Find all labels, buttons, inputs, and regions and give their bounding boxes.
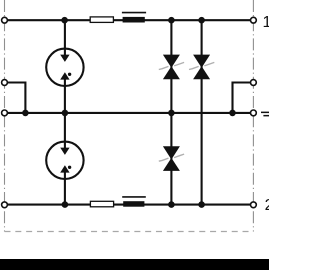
junction dot bottom rail at GDT column (62, 201, 69, 208)
ground symbol (cut off at right edge) (261, 112, 269, 117)
enclosure boundary left chain line (4, 0, 6, 232)
suppressor diode D1 (bidirectional, column A top) (159, 55, 184, 80)
terminal upper-left (2, 80, 8, 86)
wire GDT column lower shaft (64, 172, 66, 204)
inductor L1 (top, filled with core line) (122, 13, 146, 23)
junction dot middle rail at right bend (229, 110, 236, 117)
terminal middle-left (2, 110, 8, 116)
svg-text:1: 1 (263, 14, 270, 31)
junction dot bottom rail at diode column A (168, 201, 175, 208)
terminal top-left (2, 17, 8, 23)
svg-text:2: 2 (265, 197, 269, 214)
junction dot middle rail at left bend (22, 110, 29, 117)
suppressor diode D3 (bidirectional, column A bottom) (159, 146, 184, 171)
terminal 2 bottom-right (251, 202, 257, 208)
wire GDT column middle shaft (64, 79, 66, 148)
resistor R1 (top) (90, 17, 113, 23)
junction dot top rail at GDT column (61, 17, 68, 24)
junction dot middle rail at diode column A (168, 110, 175, 117)
wire bottom rail net 2 (7, 204, 250, 206)
terminal bottom-left (2, 202, 8, 208)
wire diode column A (170, 20, 172, 204)
bottom black bar (0, 259, 269, 270)
junction dot top rail at diode column B (198, 17, 205, 24)
terminal upper-right (251, 80, 257, 86)
wire GDT column upper shaft (64, 20, 66, 55)
junction dot top rail at diode column A (168, 17, 175, 24)
junction dot bottom rail at diode column B (198, 201, 205, 208)
gas discharge tube F2 (bottom circle with facing arrows and gas dot) (46, 142, 83, 179)
terminal 1 top-right (251, 17, 257, 23)
enclosure boundary bottom dashed line (5, 231, 254, 233)
wire top rail net 1 (7, 19, 250, 21)
wire middle rail earth net (7, 112, 250, 114)
junction dot middle rail at GDT column (62, 110, 69, 117)
resistor R2 (bottom) (90, 201, 113, 207)
suppressor diode D2 (bidirectional, column B) (189, 55, 214, 80)
gas discharge tube F1 (top circle with facing arrows and gas dot) (46, 49, 83, 86)
terminal earth right (251, 110, 257, 116)
enclosure boundary right chain line (252, 0, 254, 232)
wire upper-left terminal bend to middle rail (7, 83, 25, 113)
wire upper-right terminal bend to middle rail (233, 83, 251, 113)
wire diode column B (201, 20, 203, 204)
inductor L2 (bottom, filled with core line) (122, 197, 146, 207)
